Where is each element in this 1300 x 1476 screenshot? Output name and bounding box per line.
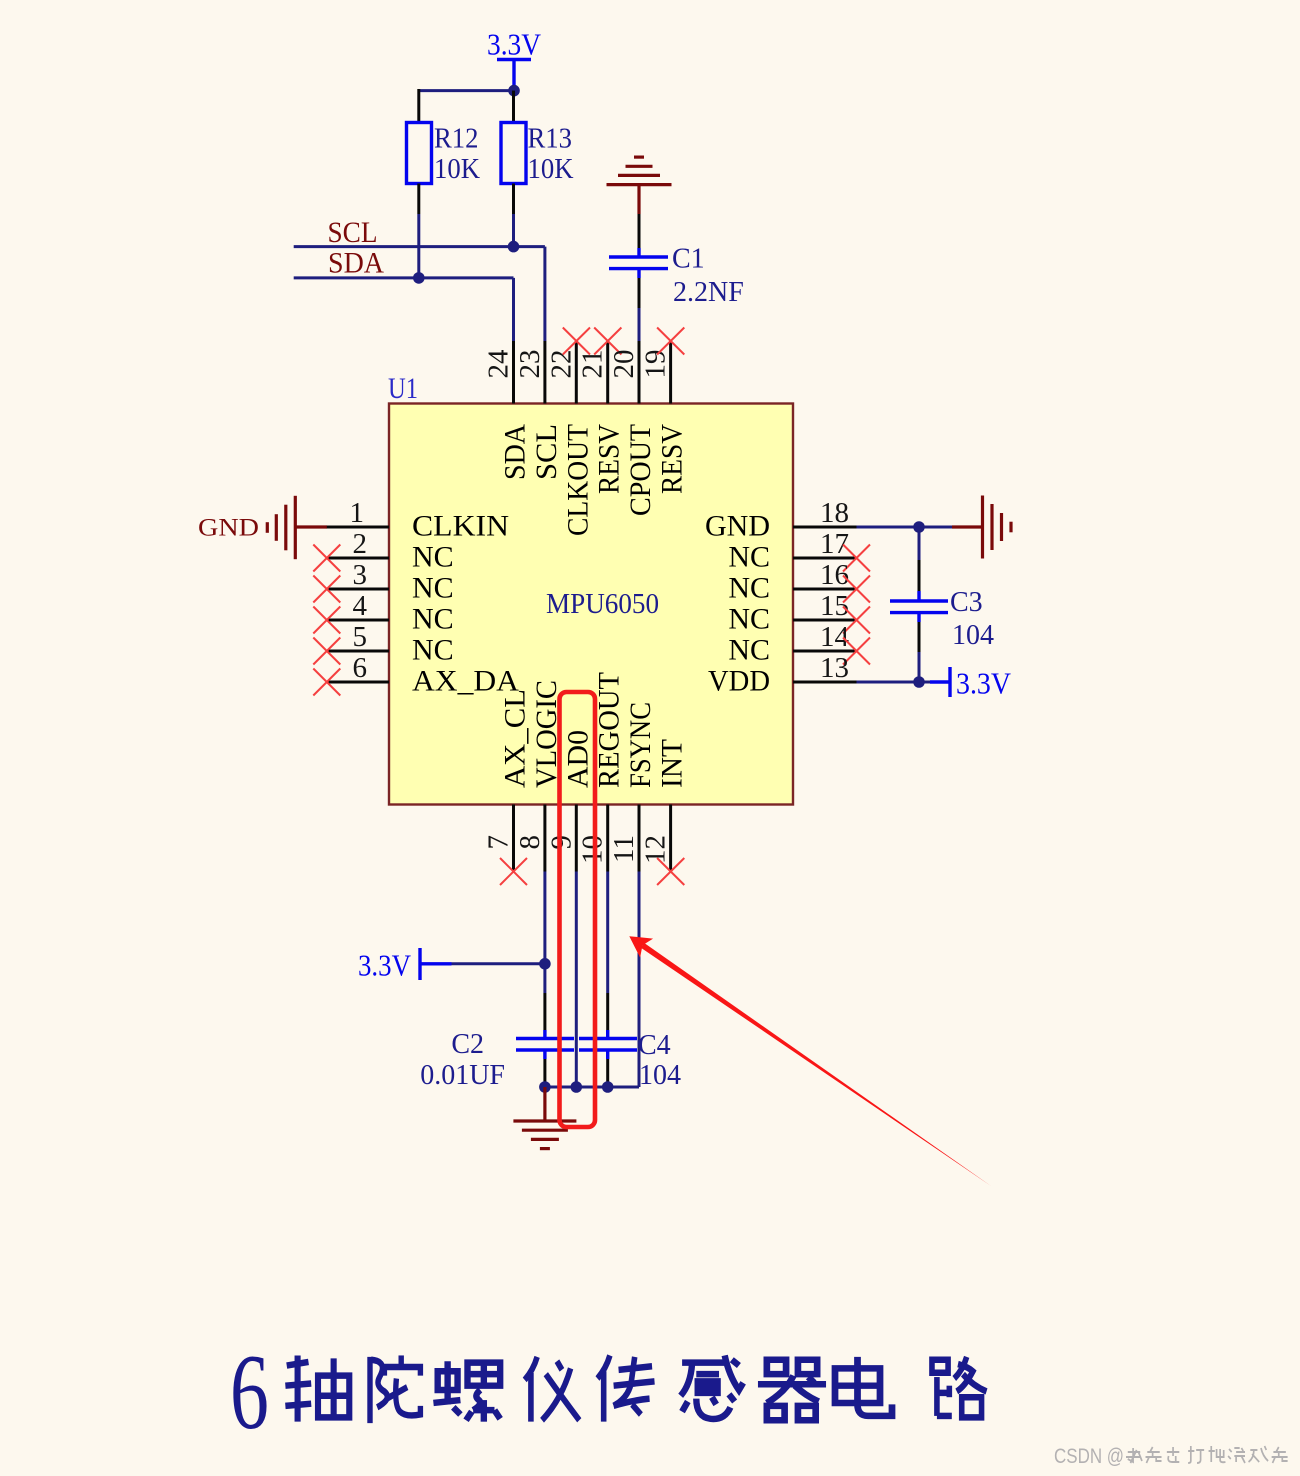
svg-text:22: 22: [545, 350, 577, 379]
pin 6 AX_DA: [313, 652, 519, 698]
svg-text:SDA: SDA: [328, 247, 384, 280]
title text 6-axis gyroscope sensor circuit (drawn glyphs): [230, 1333, 987, 1452]
junction pin18/C3: [913, 521, 925, 533]
wm char ba: [1209, 1446, 1226, 1462]
svg-text:CLKIN: CLKIN: [412, 510, 509, 543]
svg-text:RESV: RESV: [593, 424, 626, 494]
svg-text:NC: NC: [728, 603, 770, 636]
wire pin9 down: [575, 872, 578, 1088]
svg-text:2: 2: [353, 528, 368, 560]
ground earth bottom: [513, 1087, 576, 1149]
svg-text:CLKOUT: CLKOUT: [561, 424, 594, 536]
capacitor C4: [579, 993, 681, 1091]
power port 3.3V top: [487, 27, 542, 91]
title char qi (device): [758, 1360, 826, 1420]
svg-text:NC: NC: [728, 572, 770, 605]
annotation red arrow: [629, 936, 991, 1186]
svg-text:REGOUT: REGOUT: [593, 672, 626, 788]
wire SDA: [294, 278, 514, 341]
svg-text:VDD: VDD: [708, 665, 770, 698]
title char luo (snail/spiral): [433, 1361, 500, 1421]
svg-text:CPOUT: CPOUT: [624, 424, 657, 516]
svg-text:NC: NC: [412, 634, 454, 667]
wire C3 top: [918, 527, 921, 560]
capacitor C1: [609, 214, 744, 308]
svg-text:3.3V: 3.3V: [358, 948, 412, 983]
junction C4/gnd: [602, 1081, 614, 1093]
svg-text:11: 11: [608, 835, 640, 863]
pin 20 CPOUT: [608, 341, 657, 516]
wm char da: [1188, 1446, 1204, 1463]
svg-text:C3: C3: [950, 587, 983, 618]
svg-text:15: 15: [820, 590, 849, 622]
pin 14 NC: [728, 621, 870, 667]
svg-text:10K: 10K: [528, 154, 574, 185]
watermark CSDN: [1054, 1445, 1288, 1468]
svg-text:SDA: SDA: [499, 424, 532, 480]
junction SCL/R13: [508, 241, 520, 253]
capacitor C2: [420, 993, 574, 1091]
svg-text:RESV: RESV: [656, 424, 689, 494]
wm char xian: [1146, 1447, 1162, 1463]
title char zhou (axis): [285, 1355, 349, 1421]
junction pin13/C3: [913, 676, 925, 688]
pin 3 NC: [313, 559, 453, 605]
svg-text:NC: NC: [412, 603, 454, 636]
pin 12 INT: [640, 739, 689, 885]
wire ground bus: [543, 1083, 546, 1087]
wire pin11 down and across: [545, 872, 639, 1088]
svg-text:GND: GND: [198, 515, 259, 542]
title char lu (road): [932, 1357, 987, 1417]
wire 3.3V to pin8 net: [452, 962, 545, 965]
wm char xian2: [1272, 1447, 1288, 1463]
title char gan (sense): [681, 1355, 743, 1419]
wire pin18 to right ground: [857, 526, 953, 529]
svg-text:8: 8: [514, 835, 546, 850]
pin 7 AX_CL: [483, 689, 532, 885]
svg-text:7: 7: [483, 835, 515, 850]
resistor R12: [407, 89, 481, 214]
svg-text:1: 1: [350, 497, 365, 529]
svg-text:14: 14: [820, 621, 850, 653]
pin 21 RESV: [577, 328, 626, 495]
svg-text:R13: R13: [528, 124, 573, 155]
power port 3.3V right: [930, 666, 1012, 701]
wire R13 to SCL line: [512, 214, 515, 247]
wm char xi: [1249, 1446, 1269, 1462]
junction 3.3V/pin8: [539, 958, 551, 970]
svg-text:13: 13: [820, 652, 849, 684]
pin 15 NC: [728, 590, 870, 636]
svg-text:GND: GND: [705, 510, 770, 543]
pin 17 NC: [728, 528, 870, 574]
svg-text:24: 24: [483, 349, 515, 379]
svg-text:NC: NC: [412, 541, 454, 574]
wire top 3.3V to R12: [419, 89, 514, 92]
pin 9 AD0: [545, 730, 594, 872]
power port 3.3V bottom: [358, 948, 452, 983]
svg-text:3: 3: [353, 559, 368, 591]
junction top 3.3V: [508, 85, 520, 97]
resistor R13: [501, 91, 574, 214]
svg-text:U1: U1: [388, 372, 418, 405]
title char chuan (transmit): [597, 1355, 654, 1421]
svg-text:3.3V: 3.3V: [487, 27, 542, 62]
svg-text:6: 6: [230, 1333, 269, 1452]
svg-text:23: 23: [514, 350, 546, 379]
wm char you: [1228, 1448, 1245, 1463]
svg-text:R12: R12: [434, 124, 479, 155]
svg-text:NC: NC: [728, 634, 770, 667]
svg-text:104: 104: [952, 620, 994, 651]
ground earth right: [952, 496, 1011, 559]
svg-text:FSYNC: FSYNC: [624, 702, 657, 788]
svg-text:C2: C2: [451, 1029, 484, 1060]
pin 4 NC: [313, 590, 453, 636]
svg-text:NC: NC: [728, 541, 770, 574]
svg-text:21: 21: [577, 350, 609, 379]
pin 8 VLOGIC: [514, 680, 563, 872]
junction C2/gnd: [539, 1081, 551, 1093]
svg-text:16: 16: [820, 559, 849, 591]
pin 10 REGOUT: [577, 672, 626, 872]
highlight red rectangle AD0: [560, 692, 596, 1127]
svg-text:C4: C4: [638, 1030, 671, 1061]
svg-text:INT: INT: [656, 739, 689, 788]
svg-text:18: 18: [820, 497, 849, 529]
pin 13 VDD: [708, 652, 857, 698]
svg-text:NC: NC: [412, 572, 454, 605]
wire pin10 down: [606, 872, 609, 994]
svg-text:10K: 10K: [434, 154, 480, 185]
svg-text:4: 4: [353, 590, 368, 622]
svg-text:2.2NF: 2.2NF: [673, 277, 744, 308]
power port GND left: [198, 496, 327, 559]
wire pin8 down: [543, 872, 546, 994]
wire C1 to pin20: [638, 308, 641, 341]
wire R12 to SDA line: [417, 214, 420, 278]
wire C3 bottom to pin13: [857, 652, 931, 682]
wm char wo: [1126, 1448, 1142, 1463]
junction pin9/gnd: [571, 1081, 583, 1093]
pin 23 SCL: [514, 341, 563, 480]
title char tuo: [370, 1355, 420, 1423]
pin 18 GND: [705, 497, 857, 543]
svg-text:5: 5: [353, 621, 368, 653]
wire SCL: [294, 247, 545, 341]
svg-text:C1: C1: [672, 244, 705, 275]
svg-text:6: 6: [353, 652, 368, 684]
junction SDA/R12: [413, 272, 425, 284]
pin 1 CLKIN: [327, 497, 509, 543]
ground earth top (for C1): [607, 157, 672, 214]
pin 2 NC: [313, 528, 453, 574]
op IC U1 body: [389, 404, 793, 805]
pin 22 CLKOUT: [545, 328, 594, 537]
svg-text:0.01UF: 0.01UF: [420, 1060, 505, 1091]
title char dian (electric): [835, 1357, 892, 1416]
pin 11 FSYNC: [608, 702, 657, 872]
svg-text:AD0: AD0: [561, 730, 594, 788]
svg-text:AX_CL: AX_CL: [499, 689, 532, 788]
capacitor C3: [890, 560, 994, 652]
wm char qu: [1167, 1447, 1179, 1462]
pin 5 NC: [313, 621, 453, 667]
svg-text:SCL: SCL: [530, 424, 563, 480]
svg-text:17: 17: [820, 528, 849, 560]
title char yi (instrument): [525, 1357, 580, 1422]
svg-text:MPU6050: MPU6050: [546, 588, 659, 620]
svg-text:CSDN @: CSDN @: [1054, 1445, 1124, 1468]
svg-text:12: 12: [640, 835, 672, 864]
svg-text:SCL: SCL: [328, 216, 378, 249]
svg-text:20: 20: [608, 350, 640, 379]
svg-text:19: 19: [640, 350, 672, 379]
svg-text:3.3V: 3.3V: [956, 666, 1012, 701]
pin 24 SDA: [483, 341, 532, 480]
pin 16 NC: [728, 559, 870, 605]
svg-text:104: 104: [639, 1060, 681, 1091]
pin 19 RESV: [640, 328, 689, 495]
